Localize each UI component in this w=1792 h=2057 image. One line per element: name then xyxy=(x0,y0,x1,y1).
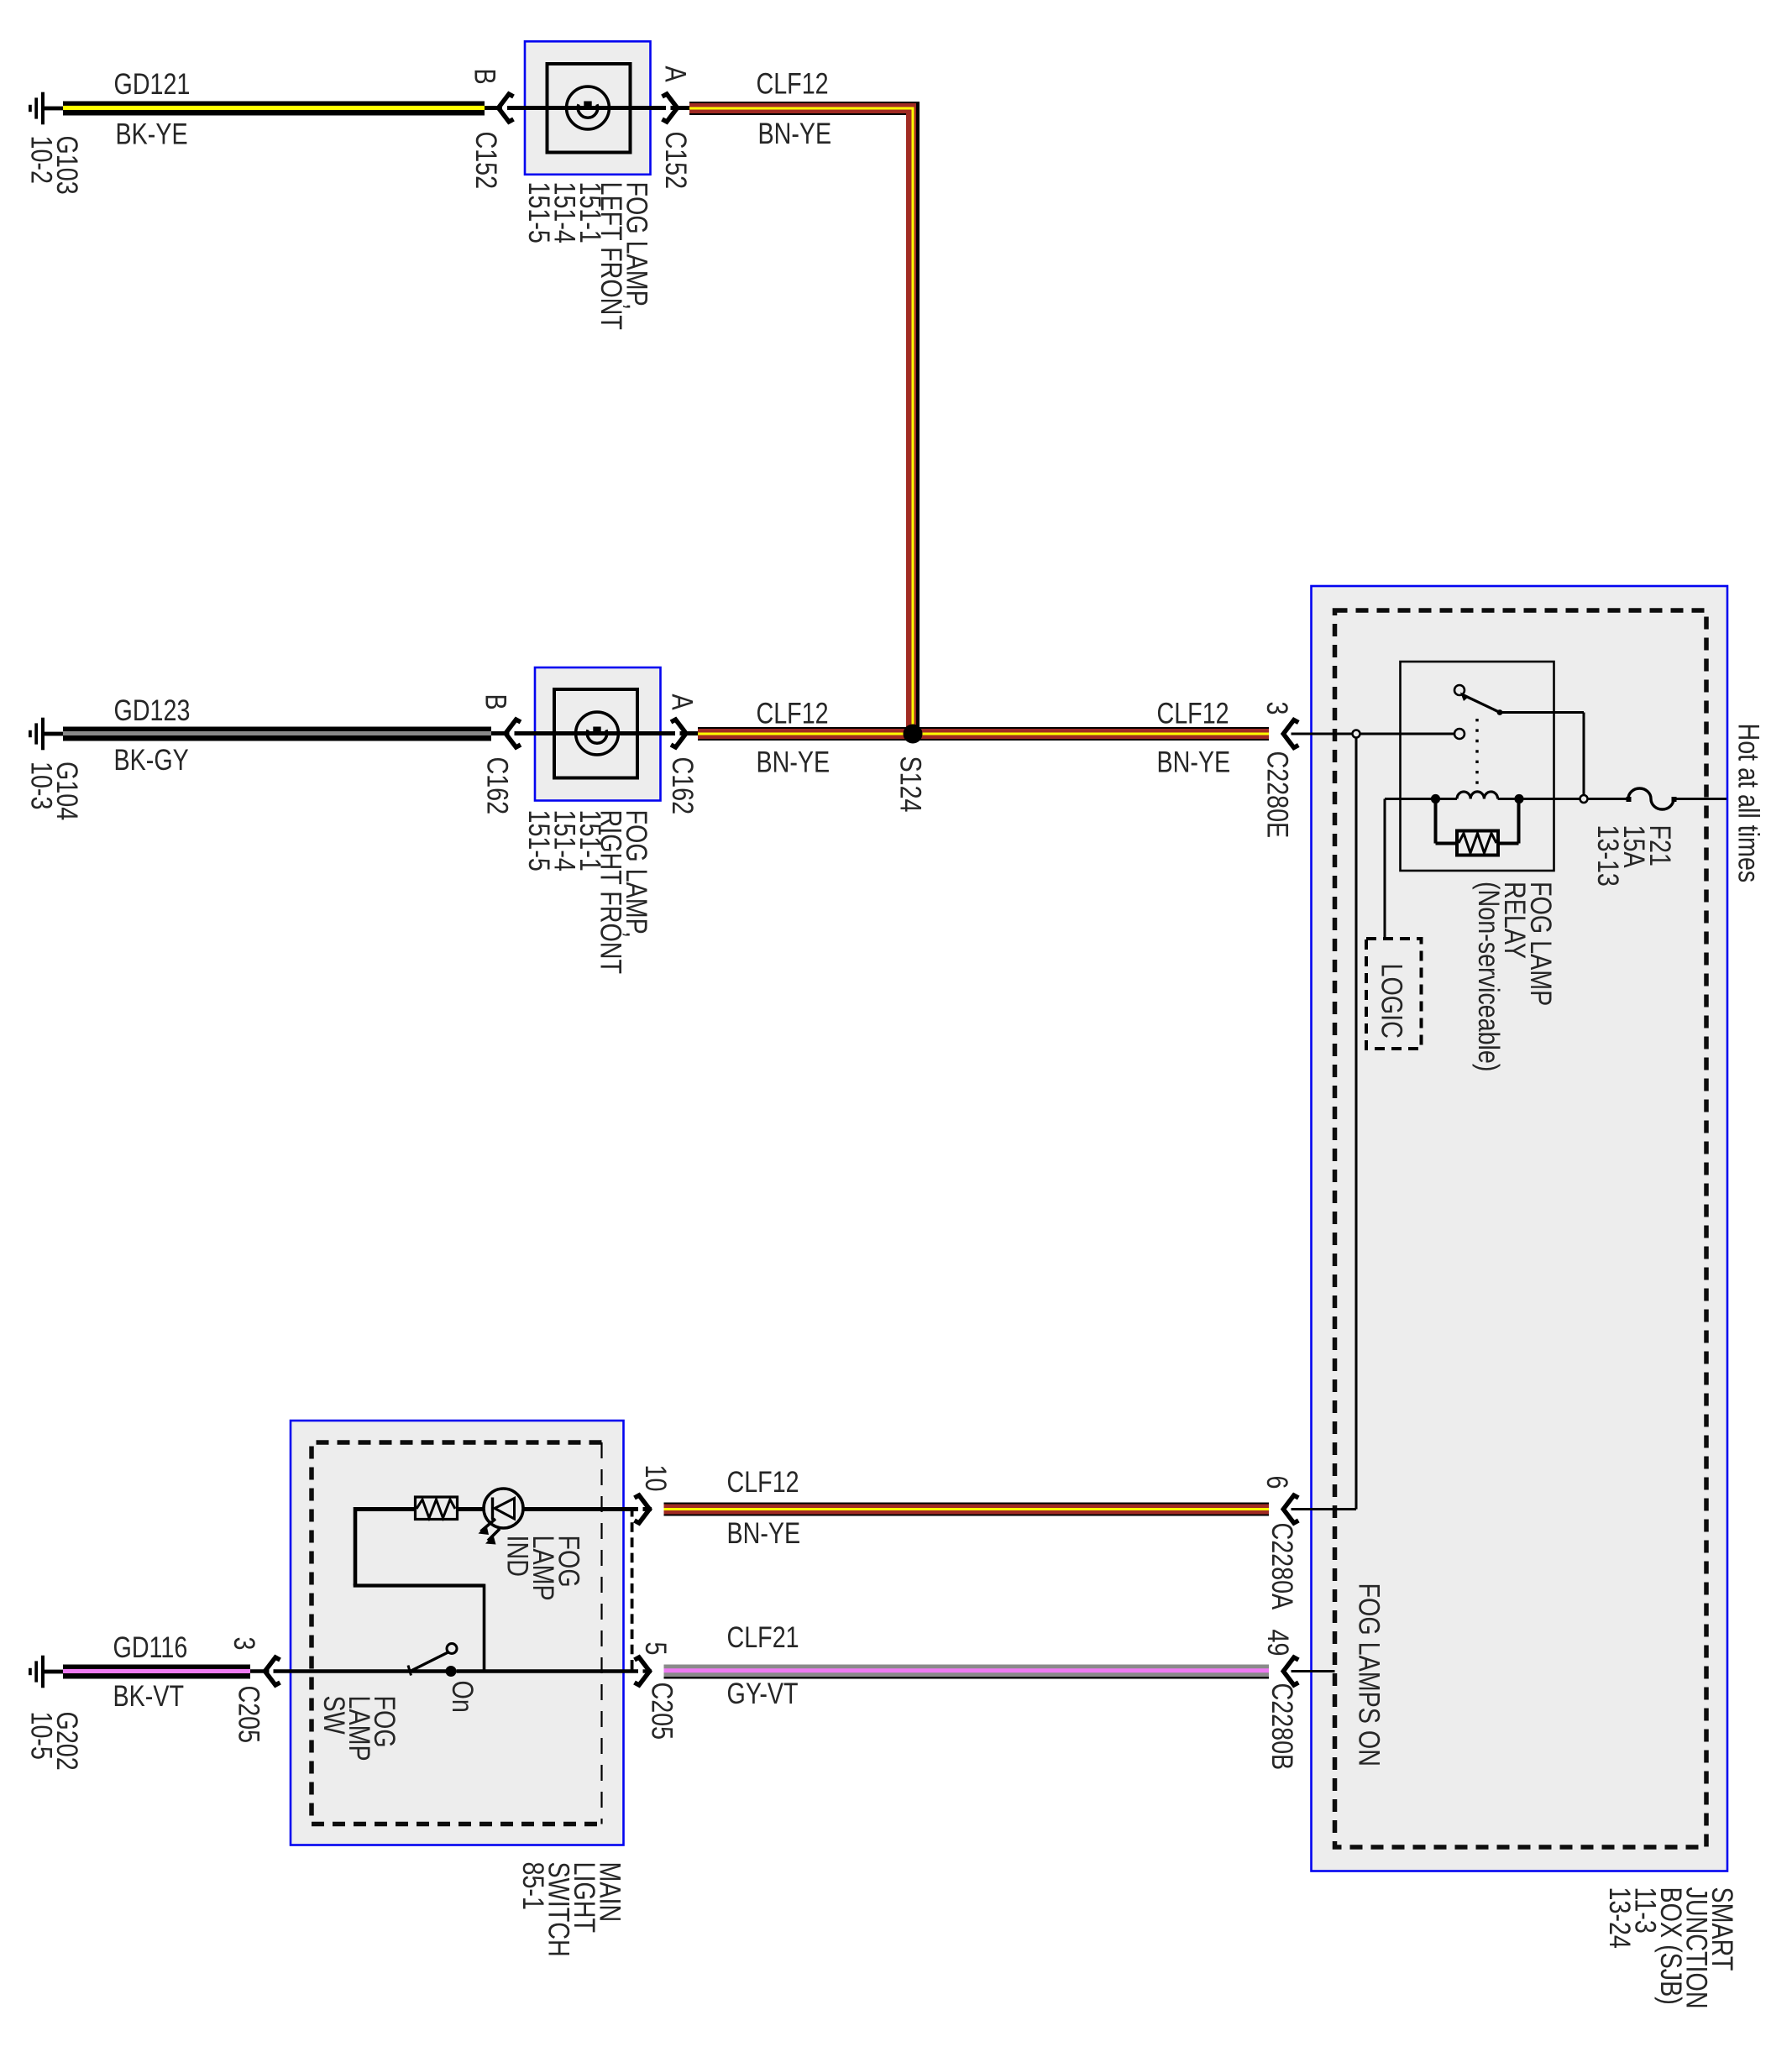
svg-text:CLF12: CLF12 xyxy=(757,697,829,730)
svg-text:BN-YE: BN-YE xyxy=(758,117,832,149)
svg-text:(Non-serviceable): (Non-serviceable) xyxy=(1472,882,1505,1071)
smart junction box SJB outline xyxy=(1312,586,1728,1871)
svg-text:C205: C205 xyxy=(646,1683,679,1740)
wire CLF21 GY-VT row4 to SJB pin 49 xyxy=(664,1665,1270,1679)
connector arrow pin 6 C2280A xyxy=(1283,1495,1298,1523)
SJB inner dashed border xyxy=(1335,610,1707,1847)
connector arrow pin 49 C2280B xyxy=(1283,1657,1298,1685)
connector arrow B C152 xyxy=(499,94,514,122)
fuse F21 feed line xyxy=(1588,798,1629,800)
svg-text:BK-VT: BK-VT xyxy=(113,1679,185,1712)
wire CLF12 BN-YE row2 to SJB pin 3 xyxy=(698,727,1269,741)
svg-text:GY-VT: GY-VT xyxy=(727,1677,799,1709)
svg-text:C152: C152 xyxy=(659,132,692,190)
wire GD121 BK-YE xyxy=(63,102,485,116)
svg-text:C2280E: C2280E xyxy=(1261,751,1294,839)
svg-text:10-2: 10-2 xyxy=(25,136,58,184)
fog lamp relay box xyxy=(1401,662,1554,871)
wire row1 thin line through connector B C152 xyxy=(485,106,502,110)
svg-text:C2280A: C2280A xyxy=(1265,1523,1298,1610)
hot feed line to border xyxy=(1677,798,1727,800)
svg-text:IND: IND xyxy=(501,1536,534,1577)
ground G104 xyxy=(29,718,63,751)
svg-text:LOGIC: LOGIC xyxy=(1375,964,1408,1039)
svg-text:151-5: 151-5 xyxy=(522,182,555,243)
svg-text:BK-GY: BK-GY xyxy=(114,743,189,776)
svg-text:13-24: 13-24 xyxy=(1603,1887,1636,1949)
main light switch internal wiring to indicator xyxy=(354,1507,485,1670)
svg-text:10-3: 10-3 xyxy=(25,762,58,809)
svg-text:13-13: 13-13 xyxy=(1591,825,1624,887)
svg-text:5: 5 xyxy=(639,1642,672,1656)
svg-text:B: B xyxy=(479,694,512,710)
connector arrow A C152 xyxy=(663,94,678,122)
row4 thin line through connector 3 C205 xyxy=(250,1669,270,1672)
relay contact circles xyxy=(1454,685,1465,695)
relay coil xyxy=(1385,798,1457,800)
svg-text:Hot at all times: Hot at all times xyxy=(1732,724,1765,883)
svg-text:C205: C205 xyxy=(233,1686,265,1744)
lamp symbol left front fog lamp xyxy=(567,86,610,129)
svg-text:CLF21: CLF21 xyxy=(727,1620,799,1653)
svg-text:85-1: 85-1 xyxy=(516,1862,549,1910)
wire row2 thin line through connector B C162 xyxy=(491,731,510,735)
connector arrow pin 5 C205 xyxy=(635,1657,650,1685)
main light switch box outline xyxy=(291,1421,624,1845)
fog lamp indicator LED xyxy=(479,1489,639,1545)
svg-text:10-5: 10-5 xyxy=(25,1712,58,1760)
svg-text:151-5: 151-5 xyxy=(522,810,555,871)
relay blade output line xyxy=(1500,711,1584,714)
LOGIC box dashed xyxy=(1366,939,1422,1049)
fuse F21 xyxy=(1627,788,1677,809)
svg-text:CLF12: CLF12 xyxy=(757,67,829,100)
SJB internal junction node xyxy=(1353,730,1360,738)
svg-text:CLF12: CLF12 xyxy=(1157,697,1229,730)
connector arrow pin 10 C205 xyxy=(635,1495,650,1523)
svg-text:BK-YE: BK-YE xyxy=(116,118,188,150)
svg-text:S124: S124 xyxy=(894,756,927,813)
wire CLF12 BN-YE row3 to SJB pin 6 xyxy=(664,1503,1270,1516)
svg-text:6: 6 xyxy=(1260,1476,1293,1489)
main light switch inner dashed border xyxy=(312,1442,602,1824)
relay actuator dotted link xyxy=(1475,719,1478,793)
svg-text:GD121: GD121 xyxy=(114,67,191,100)
lamp symbol right front fog lamp xyxy=(576,712,619,755)
SJB internal vertical line to pin 6 xyxy=(1355,738,1358,1510)
svg-text:GD116: GD116 xyxy=(113,1630,188,1663)
SJB internal line pin3 to relay xyxy=(1292,733,1353,735)
svg-text:BN-YE: BN-YE xyxy=(727,1516,801,1549)
svg-text:On: On xyxy=(446,1681,479,1713)
svg-text:3: 3 xyxy=(1260,702,1293,715)
fog lamp left front box xyxy=(525,41,651,175)
relay coil drive line down to LOGIC xyxy=(1384,799,1386,940)
line switch to pin 5 xyxy=(457,1669,639,1672)
svg-text:C152: C152 xyxy=(469,132,502,190)
svg-text:FOG LAMPS ON: FOG LAMPS ON xyxy=(1353,1583,1386,1767)
fog lamp right front box xyxy=(535,667,661,801)
connector arrow pin 3 C205 xyxy=(265,1657,280,1685)
svg-text:3: 3 xyxy=(228,1637,260,1651)
wire GD116 BK-VT xyxy=(63,1665,250,1679)
svg-text:C162: C162 xyxy=(481,757,514,815)
connector arrow B C162 xyxy=(506,720,521,747)
connector arrow A C162 xyxy=(671,720,686,747)
junction node right of relay xyxy=(1580,795,1588,803)
ground G103 xyxy=(29,92,63,125)
svg-text:BN-YE: BN-YE xyxy=(1157,746,1231,778)
svg-text:A: A xyxy=(659,66,692,83)
relay blade xyxy=(1464,695,1500,713)
SJB internal stub line from pin 49 xyxy=(1292,1670,1335,1672)
wire CLF12 BN-YE row1 (horizontal + vertical to S124) xyxy=(689,108,913,734)
svg-text:A: A xyxy=(666,694,699,711)
indicator resistor xyxy=(416,1497,458,1520)
ground G202 xyxy=(29,1656,63,1688)
connector arrow pin 3 C2280E xyxy=(1283,720,1298,748)
fog lamp switch xyxy=(408,1644,457,1678)
splice S124 xyxy=(904,725,923,744)
connector C205 dashed link pin10-pin5 xyxy=(631,1507,634,1672)
svg-text:B: B xyxy=(469,69,501,85)
svg-text:C2280B: C2280B xyxy=(1265,1683,1298,1771)
wire GD123 BK-GY xyxy=(63,727,491,741)
svg-text:CLF12: CLF12 xyxy=(727,1465,799,1498)
svg-text:10: 10 xyxy=(639,1465,672,1492)
svg-text:49: 49 xyxy=(1261,1630,1294,1657)
svg-text:SW: SW xyxy=(317,1696,350,1735)
svg-text:GD123: GD123 xyxy=(114,694,191,726)
svg-text:BN-YE: BN-YE xyxy=(757,746,831,778)
svg-text:C162: C162 xyxy=(666,757,699,815)
relay suppression resistor xyxy=(1436,799,1519,856)
